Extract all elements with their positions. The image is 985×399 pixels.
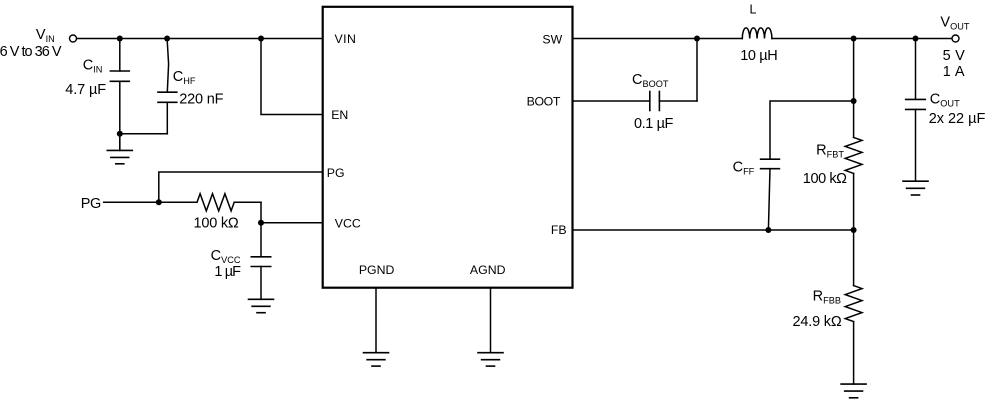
svg-text:24.9 kΩ: 24.9 kΩ xyxy=(793,314,842,330)
ground RFBB xyxy=(841,384,866,398)
svg-text:L: L xyxy=(750,3,757,17)
capacitor CVCC xyxy=(251,223,270,299)
resistor RPG xyxy=(159,194,261,211)
svg-text:PGND: PGND xyxy=(359,263,395,277)
svg-text:VIN: VIN xyxy=(335,32,356,46)
junction CFF tap xyxy=(851,98,857,104)
svg-text:2x 22 µF: 2x 22 µF xyxy=(929,111,985,127)
ground PGND xyxy=(364,353,389,366)
capacitor CBOOT xyxy=(650,39,697,111)
wire PG pin xyxy=(159,172,323,202)
svg-text:FB: FB xyxy=(551,223,567,237)
svg-text:EN: EN xyxy=(331,108,348,122)
junction FB/RFBT/RFBB xyxy=(851,227,857,233)
wire AGND xyxy=(490,288,492,353)
wire CFF top xyxy=(770,101,854,159)
resistor RFBB xyxy=(845,230,862,384)
svg-text:AGND: AGND xyxy=(470,263,506,277)
svg-text:PG: PG xyxy=(327,166,345,180)
junction PG xyxy=(156,199,162,205)
wire FB xyxy=(573,229,854,231)
wire CIN-CHF bottom xyxy=(120,133,168,135)
wire VCC pin xyxy=(261,222,323,224)
svg-text:5 V: 5 V xyxy=(943,48,966,64)
svg-text:6 V to 36 V: 6 V to 36 V xyxy=(0,44,62,60)
terminal VOUT xyxy=(952,35,959,42)
svg-text:0.1 µF: 0.1 µF xyxy=(634,116,674,132)
svg-text:1 µF: 1 µF xyxy=(214,264,241,280)
resistor RFBT xyxy=(845,137,862,230)
wire RFBT branch xyxy=(853,39,855,138)
capacitor CFF xyxy=(761,159,780,230)
svg-text:10 µH: 10 µH xyxy=(740,48,778,64)
svg-text:SW: SW xyxy=(542,32,562,46)
svg-text:VOUT: VOUT xyxy=(940,14,969,31)
wire EN branch xyxy=(261,39,323,115)
svg-text:VCC: VCC xyxy=(335,217,361,231)
wire SW rail xyxy=(573,38,743,40)
wire RPG to VCC node xyxy=(260,202,262,223)
junction EN tap xyxy=(258,36,264,42)
svg-text:CVCC: CVCC xyxy=(211,248,241,265)
junction CFF/FB xyxy=(765,227,771,233)
svg-text:100 kΩ: 100 kΩ xyxy=(803,171,847,187)
ground COUT xyxy=(903,181,928,195)
IC U1 xyxy=(323,7,573,288)
svg-text:COUT: COUT xyxy=(930,92,960,109)
svg-text:1 A: 1 A xyxy=(943,64,965,80)
junction RFBT tap xyxy=(851,36,857,42)
terminal VIN xyxy=(70,35,77,42)
wire VIN rail xyxy=(77,38,323,40)
wire PGND xyxy=(375,288,377,353)
junction CIN tap xyxy=(117,36,123,42)
svg-text:220 nF: 220 nF xyxy=(179,91,223,107)
svg-text:100 kΩ: 100 kΩ xyxy=(194,216,239,232)
capacitor COUT xyxy=(906,39,926,182)
inductor L xyxy=(742,28,772,39)
junction CBOOT/SW xyxy=(694,36,700,42)
junction CHF tap xyxy=(164,36,170,42)
svg-text:RFBB: RFBB xyxy=(813,289,841,306)
wire BOOT pin xyxy=(573,100,650,102)
svg-text:4.7 µF: 4.7 µF xyxy=(65,82,106,98)
capacitor CHF xyxy=(158,39,177,134)
svg-text:CFF: CFF xyxy=(733,160,755,177)
wire PG left xyxy=(104,201,159,203)
junction CIN bottom xyxy=(117,131,123,137)
junction COUT tap xyxy=(913,36,919,42)
svg-text:PG: PG xyxy=(81,196,102,212)
svg-text:BOOT: BOOT xyxy=(527,94,561,108)
ground CVCC xyxy=(249,299,274,312)
svg-text:CHF: CHF xyxy=(173,69,196,86)
svg-text:CIN: CIN xyxy=(83,57,103,74)
wire VOUT rail xyxy=(772,38,952,40)
ground AGND xyxy=(478,353,503,366)
capacitor CIN xyxy=(110,39,129,134)
svg-text:CBOOT: CBOOT xyxy=(632,72,669,89)
junction VCC xyxy=(258,220,264,226)
svg-text:VIN: VIN xyxy=(36,27,55,44)
svg-text:RFBT: RFBT xyxy=(816,142,844,159)
ground input xyxy=(107,134,132,164)
